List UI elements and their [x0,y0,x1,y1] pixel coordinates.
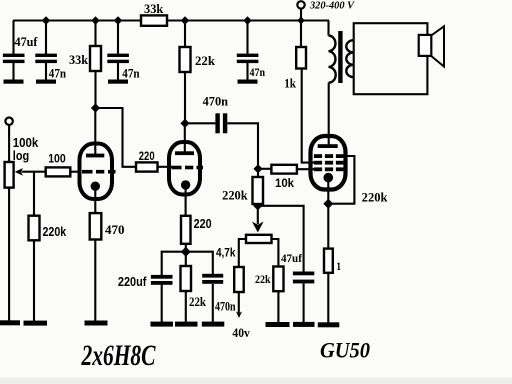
wire tube2 plate lead [184,123,186,153]
junction dot rail B [91,16,100,25]
wire pot bottom to ground [8,188,10,321]
junction dot GU50 grid node [253,164,262,173]
capacitor C1 47uf plates [3,54,25,64]
wire 47n C4 top lead [246,21,248,54]
wire 470n C9 to ground [212,284,214,322]
tube V1 cathode dot [91,182,100,191]
junction dot rail F HT entry [297,17,305,25]
svg-text:log: log [13,149,29,163]
ground R10 [175,322,198,327]
svg-text:470: 470 [105,223,125,237]
wire GU50 g3 to cathode loop [328,156,354,204]
wire 220k R3 top lead [33,172,35,216]
wire 47uf C10 to ground [303,283,305,322]
wire 22k R10 to ground [185,291,187,322]
svg-text:100: 100 [48,151,66,165]
capacitor C4 47n plates [237,54,259,64]
tube V2 cathode dot [181,180,190,189]
wire 10k R11 to GU50 g1 [297,168,314,170]
resistor R2 33k vertical [90,46,101,71]
potentiometer P2 body [246,235,272,243]
wire 47n C2 top lead [45,21,47,55]
wire GU50 cathode lead [327,178,329,204]
svg-text:470n: 470n [203,94,228,108]
svg-text:4,7k: 4,7k [216,248,236,260]
junction dot tube2 cathode node [181,247,191,257]
tube V1 plate bar [86,154,104,158]
tube V3 grid g3 dashes [314,154,344,158]
wire 33k R2 bottom lead to plate node [94,71,96,108]
wire 1k R5 lead down to GU50 g2 [302,69,314,163]
ground C3 [108,80,128,84]
tube V3 plate bar [318,144,338,148]
svg-text:2x6H8C: 2x6H8C [81,339,156,372]
wire cathode node to 220uf C8 [162,252,186,276]
wire 100 R6 to tube1 grid [70,171,81,173]
junction dot tube2 plate node [180,119,189,128]
svg-text:22k: 22k [255,272,271,286]
speaker LS1 cone [431,26,444,66]
wire 1k R5 top lead [300,21,302,48]
wire bias node to 47uf C10 [258,206,304,272]
capacitor C2 47n plates [35,54,57,64]
junction dot rail C [114,16,123,25]
resistor R5 1k vertical [296,47,306,69]
ground R8 [85,321,108,326]
wire grid node to 10k R11 [258,168,271,170]
transformer T1 primary winding [329,36,336,83]
arrow pot P2 wiper [252,222,264,233]
svg-text:47n: 47n [49,66,66,80]
junction dot rail E [243,16,252,25]
wire tube2 cathode to 220 R9 [185,185,187,216]
capacitor C3 47n plates [107,54,129,64]
svg-text:33k: 33k [69,53,88,67]
wire B+ rail left segment [13,19,141,21]
svg-text:320-400 V: 320-400 V [309,1,355,12]
svg-text:1: 1 [336,259,341,273]
arrow bias supply 40v [236,312,242,319]
ground C10 [293,322,315,327]
svg-text:47uf: 47uf [15,35,39,49]
wire B+ rail right segment [167,19,329,21]
terminal input jack circle [5,118,12,125]
wire 220k R3 bottom lead [33,240,35,321]
wire transformer primary to GU50 plate [328,83,330,146]
wire 4,7k R13 to bias arrow [238,292,240,313]
resistor R6 100 horizontal [46,167,71,176]
wire pot P2 left lead to 4,7k R13 [239,239,246,267]
wire 470n C7 to grid node [227,123,258,169]
resistor R1 33k horizontal in rail [141,15,167,25]
wire 220 R9 to cathode node [185,244,187,252]
svg-text:1k: 1k [284,77,296,91]
wire cathode node to 22k R10 [185,252,187,266]
wire pot wiper to 100 R6 and tube1 grid [22,171,46,173]
tube V3 cathode dot [324,173,334,183]
svg-text:220k: 220k [43,225,67,239]
svg-text:47n: 47n [250,65,266,79]
resistor R9 220 vertical [181,216,191,244]
svg-text:220: 220 [194,217,212,231]
ground C8 [151,322,174,327]
wire 47n C4 bottom lead [246,63,248,80]
tube V1 triode outline [80,144,113,200]
ground C9 [202,322,225,327]
ground pot P1 [0,320,20,325]
resistor R7 220 horizontal [136,162,158,171]
resistor R10 22k vertical [181,266,192,291]
svg-text:220k: 220k [222,188,248,202]
resistor R13 4,7k vertical [234,267,244,292]
wire 1 ohm R15 to ground [327,273,329,323]
wire pot P2 right lead to 22k R14 [272,239,279,267]
junction dot tube1 plate node [91,103,100,112]
ground C2 [36,80,56,84]
resistor R15 1 ohm vertical [324,249,333,273]
wire tube2 plate node to 470n C7 [185,122,215,124]
wire 47uf top lead [12,21,14,55]
junction dot GU50 cathode node [323,199,333,209]
junction dot rail A [42,16,51,25]
svg-text:47n: 47n [122,66,139,80]
tube V3 grid g2 dashes [314,161,344,165]
svg-text:220: 220 [139,149,155,163]
svg-text:47uf: 47uf [281,251,303,265]
tube V2 plate bar [175,151,194,155]
tube V2 grid dashes [172,166,204,170]
resistor R3 220k vertical [29,216,40,241]
svg-text:470n: 470n [215,299,236,313]
tube V2 triode outline [169,142,200,195]
wire direct coupling tube1 plate to 220 R7 [96,108,137,167]
wire 220 R7 to tube2 grid [158,166,173,168]
resistor R4 22k vertical [180,47,191,72]
wire 47n C3 top lead [117,21,119,54]
wire tube1 cathode to 470 R8 [94,186,96,213]
junction dot bias node [253,201,262,210]
resistor R8 470 vertical [90,213,102,239]
capacitor C10 47uf plates [293,272,314,284]
wire 22k R4 top lead [184,21,186,48]
svg-text:22k: 22k [195,54,215,68]
wire 47n C3 bottom lead [117,63,119,80]
wire tube1 plate node to tube [94,108,96,155]
wire 22k R14 to ground [277,291,279,322]
tube V1 grid dashes [82,170,116,174]
wire cathode node to 1 ohm R15 [327,204,329,249]
ground R3 [24,321,48,326]
transformer T1 core [338,31,342,83]
svg-text:GU50: GU50 [320,338,370,363]
ground R14 [266,322,290,327]
svg-text:33k: 33k [144,2,163,16]
wire 220uf C8 to ground [161,284,163,322]
wire 33k R2 top lead [94,21,96,47]
svg-text:22k: 22k [189,295,206,309]
capacitor C8 220uf plates [151,275,173,285]
resistor R14 22k vertical [273,267,283,292]
wire 220k R12 top lead [257,169,259,177]
svg-text:220uf: 220uf [118,275,147,289]
bottom scan band [0,378,512,384]
wire 470 R8 to ground [94,240,96,321]
ground C4 [238,80,258,84]
wire 47uf bottom lead [12,63,14,80]
terminal HT input circle [297,1,304,8]
capacitor C9 470n plates [202,274,223,284]
wire cathode node to 470n C9 [186,252,213,274]
wire HT terminal lead [300,8,302,20]
wire input terminal to pot [8,125,10,162]
capacitor C7 470n coupling plates [215,113,227,133]
wire 22k R4 bottom lead to plate node [184,72,186,123]
tube V3 grid g1 dashes [314,167,344,171]
wire bias node to pot wiper arrow [257,206,259,224]
tube V3 GU50 outline [311,136,346,190]
svg-text:40v: 40v [232,326,250,340]
potentiometer P1 100k log body [5,162,14,188]
wire rail to transformer primary [327,21,329,36]
potentiometer P1 wiper arrow [15,168,23,176]
wire speaker box [354,23,428,94]
resistor R12 220k vertical [253,177,264,204]
svg-text:220k: 220k [362,190,388,204]
ground C1 [4,80,24,84]
junction dot rail D [181,16,190,25]
transformer T1 secondary winding [346,40,353,77]
ground R15 [318,322,340,327]
wire 220k R12 bottom lead [257,204,259,206]
svg-text:10k: 10k [275,176,294,190]
speaker LS1 body [419,35,432,56]
wire 47n C2 bottom lead [45,63,47,80]
resistor R11 10k horizontal [271,165,297,174]
